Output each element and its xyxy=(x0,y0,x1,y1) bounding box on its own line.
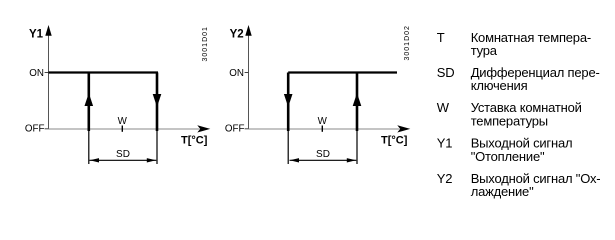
graph 2: left extension line xyxy=(287,131,289,164)
svg-text:ON: ON xyxy=(229,68,244,79)
graph 2: SD dimension line with arrows xyxy=(290,158,357,162)
graph 2: ON output segment xyxy=(288,71,397,73)
svg-text:Y2: Y2 xyxy=(230,29,244,41)
svg-text:T[°C]: T[°C] xyxy=(381,134,408,146)
graph 2: ON level tick xyxy=(245,72,249,74)
svg-text:ON: ON xyxy=(29,68,44,79)
graph 1: right extension line xyxy=(156,131,158,164)
graph 2: T axis xyxy=(249,125,411,132)
svg-text:W: W xyxy=(437,100,450,115)
graph 1: W setpoint tick xyxy=(121,126,123,132)
graph 1: SD dimension line with arrows xyxy=(90,158,157,162)
svg-text:3001D01: 3001D01 xyxy=(202,26,209,61)
svg-text:SD: SD xyxy=(437,65,455,80)
svg-text:ключения: ключения xyxy=(471,78,528,93)
graph 2: OFF level tick xyxy=(245,128,249,130)
graph 2: W setpoint tick xyxy=(321,126,323,132)
svg-text:3001D02: 3001D02 xyxy=(404,25,411,60)
svg-text:"Отопление": "Отопление" xyxy=(471,149,545,164)
svg-text:T[°C]: T[°C] xyxy=(181,134,208,146)
graph 2: switch-on transition with up arrow xyxy=(353,73,362,132)
graph 1: left extension line xyxy=(88,131,90,164)
graph 1: ON output segment xyxy=(49,71,159,73)
graph 2: switch-off transition with down arrow xyxy=(284,73,293,132)
graph 2: Y axis xyxy=(245,25,251,129)
svg-text:W: W xyxy=(118,116,128,127)
svg-text:T: T xyxy=(437,30,445,45)
legend row SD xyxy=(437,65,600,93)
graph 1: ON level tick xyxy=(45,72,49,74)
svg-text:температуры: температуры xyxy=(471,114,548,129)
graph 2: right extension line xyxy=(356,131,358,164)
svg-text:SD: SD xyxy=(316,149,330,160)
svg-text:OFF: OFF xyxy=(25,124,45,135)
graph 1: switch-on transition with up arrow xyxy=(85,73,94,132)
legend row T xyxy=(437,30,591,58)
svg-text:Y2: Y2 xyxy=(437,171,453,186)
svg-text:Y1: Y1 xyxy=(29,29,44,41)
graph 1: switch-off transition with down arrow xyxy=(153,73,162,132)
svg-text:тура: тура xyxy=(471,43,498,58)
legend row W xyxy=(437,100,582,128)
svg-text:W: W xyxy=(318,116,328,127)
svg-text:SD: SD xyxy=(116,149,130,160)
legend row Y2 xyxy=(437,171,601,199)
legend row Y1 xyxy=(437,136,573,164)
svg-text:лаждение": лаждение" xyxy=(471,184,534,199)
graph 1: Y axis xyxy=(45,25,51,129)
graph 1: OFF level tick xyxy=(45,128,49,130)
graph 1: T axis xyxy=(49,125,211,132)
svg-text:OFF: OFF xyxy=(225,124,245,135)
svg-text:Y1: Y1 xyxy=(437,136,453,151)
